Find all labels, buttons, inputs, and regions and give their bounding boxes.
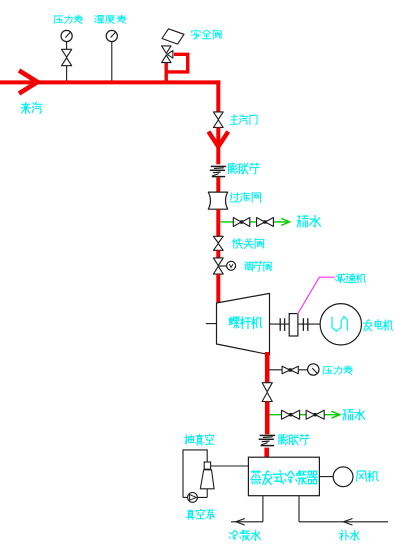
label zhenkongbeng <box>186 510 214 520</box>
vacuum pump 真空泵 (circle+triangle) <box>188 493 198 503</box>
wire ejector suction to condenser <box>211 465 249 467</box>
label pzj1 <box>229 163 260 174</box>
wire drain line 1 (green) <box>220 221 289 223</box>
label wendubiao <box>95 15 126 24</box>
ejector nozzle box <box>204 462 210 469</box>
exhaust shut-off valve <box>262 383 272 402</box>
safety valve (three-way relief symbol) <box>162 46 171 53</box>
label anquanfa <box>192 30 222 39</box>
drain valve 2b <box>306 410 324 419</box>
arrow drain 1 <box>281 218 289 225</box>
label jiansuji <box>336 274 366 284</box>
leader line to gearbox (magenta) <box>298 277 335 314</box>
label chouzhenkong <box>185 434 214 445</box>
pressure gauge (exhaust) <box>308 364 319 375</box>
expansion joint 2 <box>260 434 275 436</box>
wire safety valve discharge loop <box>166 54 188 72</box>
label bushui <box>339 530 359 540</box>
wire drive shaft <box>270 323 290 325</box>
wire actuator link <box>219 265 227 267</box>
screw expander 螺杆机 (trapezoid) <box>217 293 270 354</box>
label guolvwang <box>230 193 260 203</box>
control valve actuator circle <box>227 261 236 270</box>
label fadianji <box>364 320 393 331</box>
wire steam riser down to main stop valve <box>216 80 220 112</box>
fan 风机 (circle) <box>333 467 353 487</box>
strainer 过滤网 <box>208 192 227 209</box>
wire exhaust pipe below valve <box>265 402 270 435</box>
label pzj2 <box>279 434 309 444</box>
wire vacuum loop (bottom) <box>183 496 207 498</box>
label shushui2 <box>343 409 365 420</box>
coupling 2 <box>302 318 304 331</box>
wire makeup water drop <box>298 496 300 522</box>
wire branch to pressure gauge <box>269 369 308 371</box>
label zhuqimen <box>230 115 257 125</box>
quick closing valve 快关阀 <box>213 236 223 250</box>
expansion joint 1 <box>211 165 226 167</box>
wire vacuum loop (left/top) <box>183 450 207 498</box>
wire gauge stem upper <box>66 42 68 50</box>
drain valve 2a <box>282 410 300 419</box>
wire thermometer stem <box>111 42 113 81</box>
arrow condensate (left) <box>236 519 245 526</box>
label laiqi <box>21 102 42 113</box>
wire condensate drop <box>262 496 264 522</box>
wire main steam header (red pipe, horizontal) <box>0 80 220 84</box>
pressure gauge (top left) <box>61 30 72 41</box>
valve under pressure gauge <box>62 49 72 65</box>
arrow makeup water (left) <box>344 519 353 526</box>
wire gauge stem lower <box>66 66 68 81</box>
wire pipe into condenser <box>264 448 269 458</box>
flow arrow on steam header <box>19 71 38 94</box>
flow arrow (down) <box>208 132 228 147</box>
wire exhaust pipe from expander <box>265 352 270 383</box>
wire safety valve drop pipe <box>164 63 167 82</box>
label lengningshui <box>229 530 260 541</box>
gearbox 减速机 (rect) <box>289 314 298 336</box>
exhaust gauge isolation valve <box>282 366 298 374</box>
control valve 调节阀 <box>213 258 223 274</box>
drain valve 1a <box>233 218 250 227</box>
thermometer (top) <box>106 30 117 41</box>
label yaliba1 <box>54 15 82 24</box>
ejector cone <box>200 470 214 489</box>
wire pipe below main stop valve <box>216 127 220 164</box>
label yaliba2 <box>323 366 352 375</box>
drain valve 1b <box>257 218 274 227</box>
main stop valve 主汽门 <box>213 112 223 128</box>
coupling 1 <box>279 318 281 331</box>
label tiaojiefa <box>245 261 272 271</box>
wire condensate line <box>231 521 263 523</box>
label fengji <box>357 471 379 482</box>
label luoganji <box>229 317 262 329</box>
safety valve actuator (tilted body) <box>162 29 184 44</box>
wire drain line 2 (green) <box>270 414 339 416</box>
label kuaiguanfa <box>233 239 264 249</box>
label shushui1 <box>297 216 320 227</box>
wire pipe below strainer <box>216 209 220 236</box>
wire makeup water line <box>299 521 388 523</box>
arrow drain 2 <box>331 411 339 418</box>
generator 发电机 (circle) <box>320 304 361 345</box>
label lengningqi <box>251 471 318 485</box>
wire left shaft stub <box>206 323 217 325</box>
wire ejector outlet <box>206 489 208 498</box>
wire pipe to strainer <box>216 177 220 192</box>
wire pipe between valves <box>216 250 220 258</box>
generator symbol (cyan wave) <box>332 317 347 332</box>
wire pipe to expander inlet <box>216 274 220 303</box>
wire condenser to fan <box>319 476 333 478</box>
evaporative condenser 蒸发式冷凝器 (box) <box>248 457 319 496</box>
